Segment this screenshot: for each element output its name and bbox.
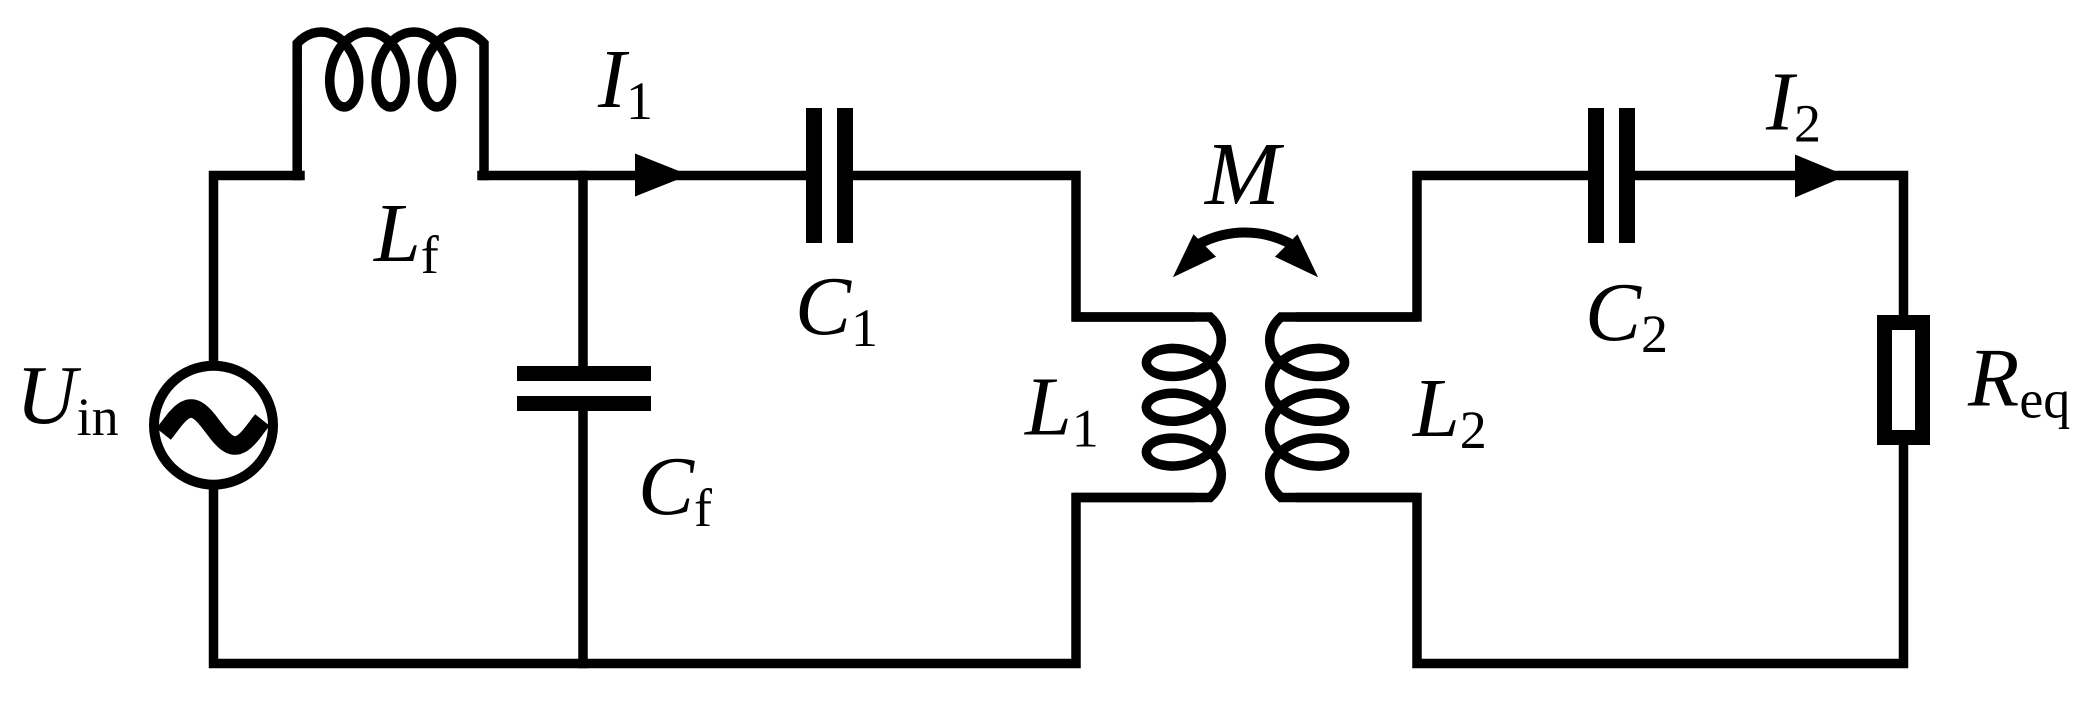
svg-text:M: M <box>1203 125 1285 224</box>
